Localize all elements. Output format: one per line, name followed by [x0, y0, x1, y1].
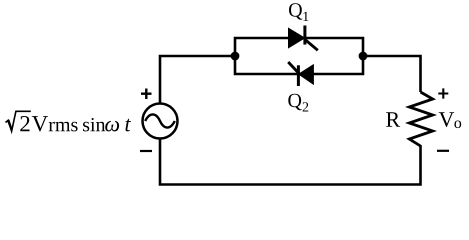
- resistor R zigzag: [409, 92, 432, 146]
- wire: parallel-branch rectangle (left vertical, top branch, right vertical, bottom branch): [235, 38, 363, 74]
- label V of Vrms: [32, 116, 48, 131]
- label Q2 subscript 2: [303, 102, 309, 111]
- AC source circle: [143, 104, 178, 139]
- plus sign at Vo top: [438, 88, 448, 98]
- label Vo letter V: [439, 112, 454, 127]
- plus sign at source top: [141, 89, 152, 100]
- label Q2 letter Q: [288, 94, 301, 110]
- node: left junction dot: [231, 52, 240, 61]
- label Vo subscript o: [454, 120, 461, 128]
- thyristor Q1 cathode bar: [303, 26, 306, 45]
- thyristor Q1 gate lead: [305, 40, 318, 51]
- wire: right junction across and down to resistor top: [362, 56, 421, 92]
- label sqrt2 digit 2: [20, 116, 29, 131]
- wire: source top up and across to left junction: [160, 56, 236, 104]
- thyristor Q1 anode triangle (pointing right): [289, 28, 305, 47]
- label t: [125, 119, 131, 132]
- AC source sine wave: [145, 114, 175, 127]
- thyristor Q2 anode triangle (pointing left): [299, 65, 314, 84]
- minus sign at Vo bottom: [437, 150, 449, 152]
- label Q1 letter Q: [289, 3, 302, 19]
- wire: resistor bottom down, bottom return wire, up to source bottom: [160, 138, 421, 185]
- radical sign of sqrt(2): [6, 111, 31, 131]
- label sin: [83, 118, 105, 131]
- thyristor Q2 cathode bar: [297, 65, 300, 86]
- label rms: [49, 122, 78, 132]
- label omega: [105, 121, 119, 132]
- label R: [386, 112, 400, 126]
- label Q1 subscript 1: [303, 12, 308, 21]
- thyristor Q2 gate lead: [288, 62, 298, 73]
- minus sign at source bottom: [140, 150, 152, 152]
- node: right junction dot: [359, 52, 368, 61]
